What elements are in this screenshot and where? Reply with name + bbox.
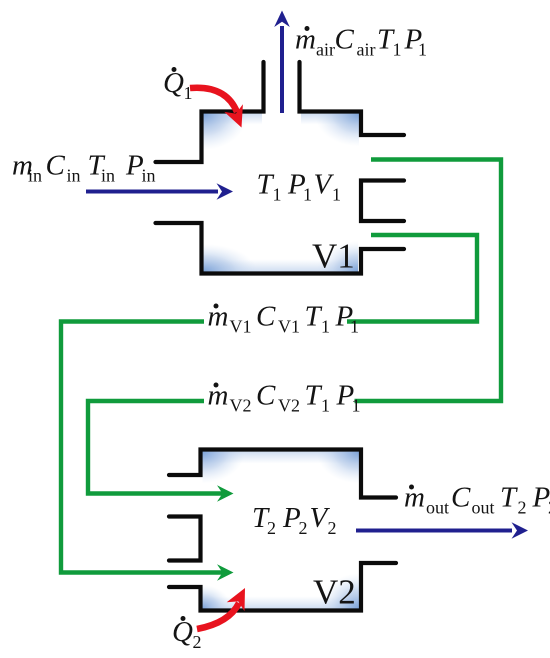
svg-text:air: air xyxy=(316,40,335,60)
svg-text:in: in xyxy=(142,166,156,186)
label m_air C_air T1 P1 xyxy=(295,24,427,60)
shading V1 top-right step corner xyxy=(313,114,359,148)
svg-text:1: 1 xyxy=(352,396,361,416)
vessel V2 walls: middle left C-stub xyxy=(169,517,201,561)
shading V1 top-left corner xyxy=(204,114,250,152)
svg-text:in: in xyxy=(101,166,115,186)
svg-text:2: 2 xyxy=(518,498,527,518)
svg-text:2: 2 xyxy=(328,518,337,538)
svg-text:2: 2 xyxy=(267,518,276,538)
blue arrow: m_out out of V2 xyxy=(356,529,512,533)
svg-text:V2: V2 xyxy=(230,396,252,416)
shading V2 bottom-right corner xyxy=(318,572,359,609)
svg-text:1: 1 xyxy=(184,83,193,103)
shading V2 top-right corner xyxy=(315,452,359,485)
svg-text:1: 1 xyxy=(321,396,330,416)
blue arrow: m_in into V1 xyxy=(86,190,218,194)
svg-text:1: 1 xyxy=(418,40,427,60)
svg-text:1: 1 xyxy=(393,40,402,60)
svg-text:1: 1 xyxy=(303,185,312,205)
svg-text:in: in xyxy=(67,166,81,186)
shading V1 top band right xyxy=(301,114,358,125)
svg-text:C: C xyxy=(256,380,276,412)
vessel V1 walls: right C-stub between ports xyxy=(361,181,404,222)
svg-text:out: out xyxy=(426,498,449,518)
shading V1 bottom-right corner xyxy=(316,240,358,272)
svg-text:V2: V2 xyxy=(278,396,300,416)
white mask behind m_V2 label xyxy=(204,385,355,415)
label m_V1 C_V1 T1 P1 xyxy=(208,301,360,337)
svg-text:C: C xyxy=(335,24,355,56)
svg-text:C: C xyxy=(256,301,276,333)
label m_out C_out T2 P2 xyxy=(404,482,550,518)
svg-text:2: 2 xyxy=(299,518,308,538)
shading V1 bottom band xyxy=(204,260,358,272)
label m_V2 C_V2 T1 P1 xyxy=(208,380,361,416)
svg-text:1: 1 xyxy=(321,317,330,337)
label m_in C_in T_in P_in xyxy=(12,150,156,186)
shading V1 top band left xyxy=(204,114,262,125)
shading V2 top band xyxy=(203,452,360,464)
svg-text:V1: V1 xyxy=(278,317,300,337)
svg-text:C: C xyxy=(451,482,471,514)
green pipe path B: V1 upper right port to V2 upper left port (m_V2 stream) xyxy=(88,160,501,494)
label T1 P1 V1 inside vessel V1 xyxy=(257,169,342,205)
green pipe path A: V1 lower right port to V2 lower left port (m_V1 stream) xyxy=(61,235,477,573)
svg-text:1: 1 xyxy=(350,317,359,337)
shading V1 bottom-left corner xyxy=(204,243,259,272)
vessel V1 walls: inlet top stub, left wall, top wall, chimney left xyxy=(156,62,264,162)
white mask behind m_V1 label xyxy=(204,306,347,336)
green arrowhead into V2 lower port xyxy=(217,564,234,580)
vessel V1 walls: chimney right, top wall right, step, upper right stub xyxy=(300,62,405,135)
svg-text:T: T xyxy=(305,380,323,412)
svg-text:V1: V1 xyxy=(230,317,252,337)
svg-text:V1: V1 xyxy=(312,237,355,276)
svg-text:m: m xyxy=(404,482,425,514)
svg-text:C: C xyxy=(46,150,66,182)
vessel V1 walls: lower right stub, right wall, bottom wall, left wall, inlet bottom stub xyxy=(156,223,405,274)
svg-text:T: T xyxy=(500,482,518,514)
red curved arrow Q2 into V2 xyxy=(197,603,239,629)
svg-text:in: in xyxy=(28,166,42,186)
svg-text:2: 2 xyxy=(193,632,202,652)
svg-text:V2: V2 xyxy=(313,573,356,612)
red curved arrow Q1 into V1 xyxy=(190,88,237,112)
green arrowhead into V2 upper port xyxy=(217,485,234,501)
label Q2 with overdot xyxy=(172,616,202,652)
shading V2 bottom band xyxy=(203,597,360,609)
svg-text:1: 1 xyxy=(332,185,341,205)
svg-text:T: T xyxy=(305,301,323,333)
vessel V2 walls: upper left stub, left wall, top wall, right wall, outlet top stub xyxy=(169,450,396,498)
shading V2 bottom-left corner xyxy=(203,584,233,609)
svg-text:1: 1 xyxy=(273,185,282,205)
label Q1 with overdot xyxy=(163,67,193,103)
svg-text:out: out xyxy=(472,498,495,518)
blue arrow: air out up through chimney xyxy=(280,26,284,113)
vessel V2 walls: lower left stub, left wall, bottom wall, right wall, outlet bottom stub xyxy=(169,563,396,611)
svg-text:air: air xyxy=(357,40,376,60)
shading V2 top-left corner xyxy=(203,452,247,485)
label T2 P2 V2 inside vessel V2 xyxy=(252,502,337,538)
